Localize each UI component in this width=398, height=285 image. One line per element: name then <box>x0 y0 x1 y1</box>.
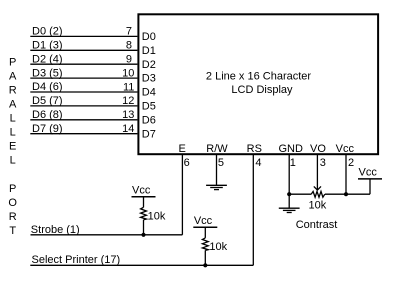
svg-text:9: 9 <box>126 54 132 66</box>
svg-text:Select Printer (17): Select Printer (17) <box>32 254 121 266</box>
wiper arrow of potentiometer <box>314 186 321 190</box>
wire Select Printer <box>30 264 253 266</box>
svg-text:14: 14 <box>122 123 134 135</box>
power Vcc right <box>369 179 371 194</box>
svg-text:D4: D4 <box>142 87 156 99</box>
svg-text:D4 (6): D4 (6) <box>32 81 63 93</box>
svg-text:D0: D0 <box>142 31 156 43</box>
svg-text:D7 (9): D7 (9) <box>32 123 63 135</box>
svg-text:5: 5 <box>218 157 224 169</box>
svg-text:8: 8 <box>126 40 132 52</box>
svg-text:A: A <box>9 99 17 111</box>
wire Strobe <box>31 234 183 236</box>
wire pin RS vertical <box>252 155 254 265</box>
svg-text:L: L <box>10 155 16 167</box>
LCD module U1 box <box>138 14 378 154</box>
svg-text:GND: GND <box>278 143 303 155</box>
svg-text:1: 1 <box>290 157 296 169</box>
svg-text:D3: D3 <box>142 73 156 85</box>
svg-text:10k: 10k <box>209 241 227 253</box>
svg-text:12: 12 <box>122 95 134 107</box>
svg-text:2 Line x 16 Character: 2 Line x 16 Character <box>206 70 312 82</box>
wire D3 <box>30 77 137 79</box>
svg-text:R/W: R/W <box>206 143 228 155</box>
svg-text:13: 13 <box>122 109 134 121</box>
ground for GND pin <box>279 208 300 212</box>
potentiometer R3 10k contrast <box>289 191 370 197</box>
svg-text:L: L <box>10 127 16 139</box>
wire D7 <box>30 133 137 135</box>
resistor R1 10k pullup <box>141 197 147 235</box>
svg-text:D7: D7 <box>142 128 156 140</box>
svg-text:Vcc: Vcc <box>132 184 151 196</box>
power Vcc left (strobe pullup) <box>132 184 156 196</box>
svg-text:7: 7 <box>126 26 132 38</box>
wire pin Vcc vertical <box>345 155 347 194</box>
svg-text:D2 (4): D2 (4) <box>32 53 63 65</box>
svg-text:D1: D1 <box>142 45 156 57</box>
svg-text:A: A <box>9 71 17 83</box>
svg-text:D6: D6 <box>142 114 156 126</box>
svg-text:D3 (5): D3 (5) <box>32 67 63 79</box>
junction select node <box>203 263 207 267</box>
wire pin VO vertical <box>316 155 318 190</box>
svg-text:L: L <box>10 113 16 125</box>
svg-text:D2: D2 <box>142 59 156 71</box>
svg-text:D0 (2): D0 (2) <box>32 26 63 38</box>
wire pin E vertical <box>181 155 183 235</box>
svg-text:P: P <box>9 183 16 195</box>
svg-text:10: 10 <box>122 67 134 79</box>
svg-text:Vcc: Vcc <box>194 215 213 227</box>
wire D2 <box>30 63 137 65</box>
svg-text:D5 (7): D5 (7) <box>32 95 63 107</box>
svg-text:6: 6 <box>184 157 190 169</box>
svg-text:T: T <box>9 225 16 237</box>
wire D1 <box>30 49 137 51</box>
power Vcc middle (select pullup) <box>193 215 217 227</box>
svg-text:LCD Display: LCD Display <box>231 84 293 96</box>
svg-text:D6 (8): D6 (8) <box>32 109 63 121</box>
svg-text:D5: D5 <box>142 101 156 113</box>
wire D0 <box>30 35 137 37</box>
svg-text:10k: 10k <box>309 199 327 211</box>
ground for R/W <box>206 185 227 189</box>
svg-text:11: 11 <box>123 81 134 93</box>
wire D5 <box>30 105 137 107</box>
svg-text:O: O <box>8 197 17 209</box>
wire D6 <box>30 119 137 121</box>
junction strobe node <box>141 233 145 237</box>
svg-text:2: 2 <box>348 157 354 169</box>
wire pin GND vertical <box>288 155 290 208</box>
svg-text:VO: VO <box>310 143 326 155</box>
svg-text:RS: RS <box>247 143 262 155</box>
svg-text:Vcc: Vcc <box>359 167 378 179</box>
svg-text:10k: 10k <box>148 211 166 223</box>
svg-text:R: R <box>9 211 17 223</box>
svg-text:P: P <box>9 57 16 69</box>
svg-text:E: E <box>179 143 186 155</box>
svg-text:3: 3 <box>320 157 326 169</box>
svg-text:R: R <box>9 85 17 97</box>
wire D4 <box>30 91 137 93</box>
wire pin R/W vertical <box>216 155 218 185</box>
resistor R2 10k pullup <box>202 227 208 265</box>
vertical label PARALLEL PORT <box>8 57 17 237</box>
svg-text:4: 4 <box>255 157 261 169</box>
svg-text:Contrast: Contrast <box>296 219 338 231</box>
svg-text:Vcc: Vcc <box>336 143 355 155</box>
svg-text:Strobe (1): Strobe (1) <box>31 224 80 236</box>
svg-text:D1 (3): D1 (3) <box>32 40 63 52</box>
junction Vcc node <box>344 192 348 196</box>
svg-text:E: E <box>9 141 16 153</box>
junction GND node <box>287 192 291 196</box>
